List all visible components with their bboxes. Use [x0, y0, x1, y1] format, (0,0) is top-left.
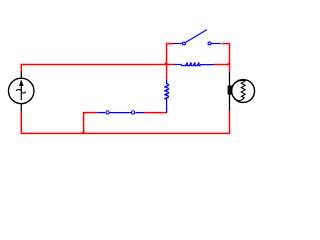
inductor L1 (horizontal coil on top rail)	[174, 63, 214, 66]
wire right branch switch row down to top rail	[229, 43, 231, 65]
wire bottom rail	[21, 132, 229, 134]
wire right branch lamp to bottom rail	[229, 110, 231, 134]
inductor L2 (vertical coil, middle branch)	[164, 79, 168, 112]
current source I1 top pin stub	[20, 72, 22, 79]
lamp X1 top black lead	[229, 72, 231, 86]
junction dot on bottom rail	[80, 130, 84, 134]
lamp X1 filament zigzag	[241, 81, 246, 100]
switch S1 left lead	[174, 43, 182, 45]
wire switch S1 left stub	[167, 43, 174, 45]
switch S1 lever (open)	[185, 30, 207, 43]
wire top rail from source to middle junction	[21, 64, 166, 66]
lamp X1 upper neck arc	[232, 80, 246, 87]
junction dot at middle of top rail	[163, 61, 167, 65]
switch S2 left lead (bottom row, closed switch)	[98, 112, 106, 114]
wire left branch bottom (current source to bottom rail)	[20, 111, 22, 134]
current source I1 circle body	[8, 78, 34, 104]
wire bottom switch row right red piece	[145, 112, 167, 114]
wire left branch top (down to current source)	[20, 64, 22, 72]
lamp X1 base block	[228, 86, 232, 95]
wire right branch down to lamp	[229, 65, 231, 72]
wire bottom switch drop to bottom rail	[83, 112, 85, 134]
current source I1 AC tilde	[16, 90, 25, 93]
junction dot at right end of top rail	[227, 61, 231, 65]
switch S2 left terminal circle	[106, 111, 109, 114]
switch S1 right terminal circle	[208, 42, 211, 45]
current source I1 bottom pin stub	[20, 104, 22, 112]
wire middle branch top of inductor L2	[166, 65, 168, 80]
switch S1 left terminal circle	[182, 42, 185, 45]
wire inductor L1 right stub	[214, 64, 230, 66]
wire inductor L1 left stub	[167, 64, 174, 66]
wire middle branch junction up to switch row	[166, 43, 168, 65]
lamp X1 bulb circle	[232, 80, 255, 103]
switch S1 right lead	[211, 43, 221, 45]
lamp X1 bottom black lead	[229, 94, 231, 110]
lamp X1 lower neck arc	[232, 94, 241, 101]
switch S2 right lead	[135, 112, 145, 114]
switch S2 bar between terminals	[108, 112, 134, 114]
wire switch S1 right stub	[222, 43, 230, 45]
switch S2 right terminal circle	[131, 111, 134, 114]
current source I1 arrow head	[19, 80, 24, 86]
wire bottom switch row horizontal left stub	[84, 112, 98, 114]
current source I1 arrow shaft	[20, 81, 22, 101]
